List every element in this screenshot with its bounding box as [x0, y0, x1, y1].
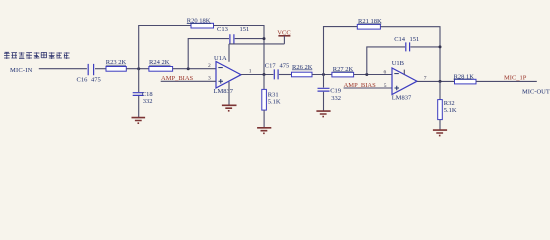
node C13 tap	[187, 67, 190, 70]
chinese note text (stylized)	[4, 52, 70, 59]
svg-text:5.1K: 5.1K	[444, 107, 457, 114]
wire output row U1A	[241, 74, 273, 76]
svg-text:6: 6	[384, 69, 387, 75]
svg-text:U1A: U1A	[214, 55, 227, 62]
ground under U1A	[222, 105, 237, 111]
wire R28 to MIC_1P	[476, 80, 537, 82]
svg-text:5: 5	[384, 83, 387, 89]
capacitor C17	[265, 62, 292, 79]
svg-text:2: 2	[208, 63, 211, 69]
wire C13 left vertical	[188, 39, 229, 69]
wire R27 to pin6 U1B	[354, 74, 392, 76]
wire R23 to R24	[126, 68, 149, 70]
resistor R31	[262, 75, 281, 128]
op-amp U1A	[214, 55, 242, 95]
wire feedback left vertical to R20	[139, 26, 191, 69]
node C19/R21 junction	[322, 73, 325, 76]
wire R26 to R27	[312, 74, 332, 76]
svg-text:AMP_BIAS: AMP_BIAS	[344, 82, 377, 89]
svg-text:475: 475	[91, 77, 101, 84]
capacitor C18	[133, 69, 153, 117]
capacitor C16	[77, 64, 107, 84]
svg-text:C13: C13	[217, 26, 228, 33]
svg-text:LM837: LM837	[392, 94, 412, 101]
node output/R32	[439, 80, 442, 83]
capacitor C13	[217, 26, 264, 44]
svg-text:7: 7	[424, 75, 427, 81]
capacitor C19	[318, 75, 342, 111]
resistor R21	[357, 18, 382, 29]
svg-text:332: 332	[143, 98, 153, 105]
wire R20 to right vertical	[214, 26, 265, 75]
wire MIC-IN to C16	[39, 68, 87, 70]
net AMP_BIAS stage2	[344, 82, 392, 89]
ground under C18	[132, 118, 146, 124]
svg-text:MIC-IN: MIC-IN	[10, 67, 33, 74]
resistor R28	[454, 73, 476, 84]
svg-text:C19: C19	[330, 87, 341, 94]
wire output row U1B	[417, 80, 455, 82]
svg-text:151: 151	[410, 36, 420, 43]
svg-text:C16: C16	[77, 77, 89, 84]
net AMP_BIAS stage1	[161, 75, 216, 82]
svg-text:151: 151	[240, 26, 250, 33]
svg-text:332: 332	[331, 95, 341, 102]
U1B top power pin	[403, 70, 405, 75]
node C14 tap	[365, 73, 368, 76]
svg-text:1: 1	[249, 69, 252, 75]
wire R24 to pin2 U1A	[173, 68, 216, 70]
ground under R32	[433, 130, 447, 136]
svg-text:5.1K: 5.1K	[268, 98, 281, 105]
power VCC	[229, 29, 291, 62]
svg-text:AMP_BIAS: AMP_BIAS	[161, 75, 194, 82]
resistor R27	[332, 66, 354, 77]
ground under C19	[316, 111, 330, 117]
node output/feedback	[263, 73, 266, 76]
op-amp U1B	[392, 60, 417, 102]
ground under R31	[257, 128, 271, 134]
svg-text:R31: R31	[268, 91, 279, 98]
svg-text:475: 475	[280, 62, 290, 69]
svg-text:U1B: U1B	[392, 60, 405, 67]
resistor R20	[187, 18, 214, 29]
svg-text:MIC_1P: MIC_1P	[504, 75, 527, 82]
node C14/feedback	[439, 45, 442, 48]
svg-text:C17: C17	[265, 62, 277, 69]
svg-text:LM837: LM837	[214, 88, 234, 95]
U1A bottom power pin	[228, 82, 230, 105]
svg-text:C14: C14	[394, 36, 406, 43]
node R23/R24/C18 junction	[137, 67, 140, 70]
resistor R32	[438, 81, 457, 129]
svg-text:R32: R32	[444, 100, 455, 107]
svg-text:MIC-OUT: MIC-OUT	[522, 88, 550, 95]
svg-text:3: 3	[208, 75, 211, 81]
capacitor C14	[394, 36, 440, 51]
wire C14 left vertical	[367, 47, 405, 75]
wire R21 left vertical	[324, 27, 358, 75]
resistor R23	[106, 59, 127, 71]
node C13/feedback	[263, 37, 266, 40]
wire R21 to right vertical	[380, 27, 440, 82]
resistor R26	[292, 64, 313, 77]
resistor R24	[149, 59, 173, 71]
